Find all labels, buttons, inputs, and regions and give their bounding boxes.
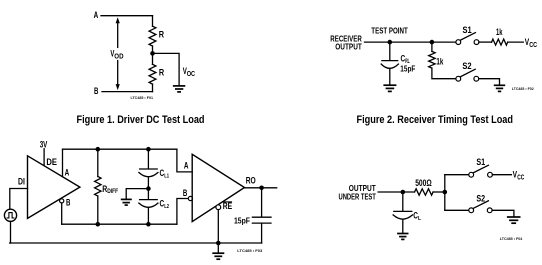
node junction dot — [150, 51, 155, 56]
svg-text:RO: RO — [246, 176, 256, 186]
svg-text:LTC485 • F01: LTC485 • F01 — [131, 95, 154, 100]
wire S2 to ground — [479, 79, 500, 85]
svg-text:OUTPUT: OUTPUT — [335, 41, 362, 51]
wire right vertical top stub — [152, 16, 154, 27]
svg-text:DIFF: DIFF — [107, 188, 118, 195]
wire S1 to 1k — [479, 41, 492, 43]
wire receiver output main — [365, 41, 456, 43]
resistor R (top) — [149, 26, 156, 46]
wire output under test — [378, 191, 414, 193]
svg-text:L: L — [418, 216, 421, 222]
node dot branch — [443, 190, 448, 195]
resistor 1k vertical — [431, 42, 433, 51]
wire S2 to ground — [492, 210, 514, 216]
svg-text:15pF: 15pF — [234, 216, 250, 226]
svg-text:Figure 1. Driver DC Test Load: Figure 1. Driver DC Test Load — [77, 114, 205, 126]
svg-text:A: A — [94, 10, 99, 20]
driver U1 triangle — [28, 156, 80, 219]
wire 3V to DE — [43, 149, 45, 166]
svg-text:L1: L1 — [164, 174, 169, 180]
node dot top rail RDIFF — [96, 147, 101, 152]
svg-text:CC: CC — [529, 42, 537, 49]
capacitor CL — [402, 192, 404, 211]
ground (S2 figure 2) — [494, 85, 505, 91]
node dot CL branch — [401, 190, 406, 195]
ground (CL figure 4) — [397, 234, 408, 240]
pulse generator source — [4, 209, 16, 221]
node dot B rail CL2 — [146, 222, 151, 227]
resistor R (bottom) — [149, 64, 156, 84]
svg-text:500Ω: 500Ω — [415, 178, 432, 188]
svg-text:LTC485 • F03: LTC485 • F03 — [237, 248, 263, 253]
capacitor CL1 — [147, 149, 149, 168]
svg-text:1k: 1k — [436, 56, 443, 66]
wire 1k to VCC — [508, 41, 524, 43]
svg-text:UNDER TEST: UNDER TEST — [339, 192, 377, 202]
svg-text:OC: OC — [187, 71, 195, 78]
receiver B bubble — [188, 196, 192, 200]
svg-text:CC: CC — [517, 174, 524, 181]
wire RE to ground rail — [217, 210, 219, 243]
wire driver A to top rail — [62, 149, 64, 176]
ground (figure 1) — [173, 86, 185, 92]
switch S2 (figure 2) — [456, 76, 461, 81]
svg-text:A: A — [184, 161, 189, 171]
wire to S2 — [445, 209, 469, 211]
svg-text:LTC485 • F04: LTC485 • F04 — [500, 236, 523, 241]
wire driver B to bottom rail — [61, 203, 63, 224]
wire node to VOC branch — [153, 53, 180, 85]
RE bubble — [216, 205, 221, 210]
B rail — [62, 223, 177, 225]
wire A horizontal — [101, 15, 153, 17]
svg-text:S1: S1 — [476, 157, 485, 167]
svg-text:TEST POINT: TEST POINT — [371, 25, 408, 35]
svg-text:S1: S1 — [463, 25, 472, 35]
svg-text:A: A — [65, 168, 70, 178]
wire RO output — [245, 187, 277, 189]
svg-text:DE: DE — [46, 157, 57, 167]
svg-text:LTC485 • F02: LTC485 • F02 — [512, 86, 535, 91]
capacitor CRL — [389, 42, 391, 60]
resistor 500 ohm — [415, 189, 434, 195]
wire B horizontal — [102, 91, 153, 93]
wire resistor to node — [152, 46, 154, 64]
svg-text:S2: S2 — [462, 61, 471, 71]
driver output B bubble — [60, 199, 64, 203]
switch S1 (figure 2) — [456, 40, 461, 45]
ground rail (bottom) — [10, 242, 262, 244]
receiver U2 triangle — [192, 154, 244, 221]
capacitor CL2 — [147, 189, 149, 199]
wire resistor to B line — [152, 84, 154, 92]
svg-text:1k: 1k — [496, 27, 503, 37]
node 1k branch dot — [430, 40, 435, 45]
svg-text:15pF: 15pF — [400, 63, 415, 73]
node test point dot — [388, 40, 393, 45]
ground (CRL) — [383, 85, 396, 91]
node dot CL mid — [146, 186, 151, 191]
svg-text:B: B — [94, 86, 98, 96]
svg-text:R: R — [159, 68, 165, 78]
ground (CL mid) — [121, 199, 132, 205]
node dot RE ground rail — [216, 241, 221, 246]
svg-text:R: R — [159, 29, 165, 39]
wire DI input — [10, 189, 28, 210]
wire to S1 — [445, 174, 469, 176]
node dot B rail RDIFF — [96, 222, 101, 227]
svg-text:B: B — [66, 198, 70, 208]
top rail — [63, 148, 177, 150]
resistor 1k horizontal — [492, 39, 508, 45]
switch S2 (figure 4) — [469, 208, 474, 213]
svg-text:DI: DI — [18, 177, 25, 187]
svg-text:L2: L2 — [164, 204, 169, 210]
wire branch vertical — [444, 175, 446, 211]
wire resistor to branch node — [433, 191, 445, 193]
node dot top rail CL1 — [146, 147, 151, 152]
svg-text:Figure 2. Receiver Timing Tes: Figure 2. Receiver Timing Test Load — [357, 114, 514, 126]
wire B rail to receiver B — [177, 199, 188, 225]
wire CL mid to ground — [126, 189, 148, 199]
switch S1 (figure 4) — [469, 172, 474, 177]
wire pulse gen to ground rail — [9, 221, 12, 243]
svg-text:S2: S2 — [476, 194, 485, 204]
VOD double arrow lower shaft — [117, 61, 119, 86]
ground (S2 figure 4) — [507, 217, 521, 223]
resistor RDIFF — [97, 149, 99, 176]
VOD double arrow upper shaft — [117, 22, 119, 48]
svg-text:B: B — [183, 188, 187, 198]
ground (main rail) — [217, 243, 219, 252]
svg-text:OD: OD — [114, 53, 123, 60]
wire S1 to VCC — [492, 174, 511, 176]
wire top rail to receiver A — [177, 149, 192, 172]
node dot RO — [259, 186, 264, 191]
capacitor 15pF (RO) — [261, 188, 263, 217]
